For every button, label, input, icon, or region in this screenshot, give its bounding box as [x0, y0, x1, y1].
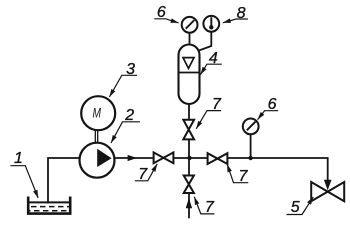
svg-text:3: 3: [126, 61, 135, 78]
svg-text:1: 1: [14, 150, 23, 167]
svg-text:4: 4: [209, 50, 218, 67]
svg-text:7: 7: [138, 166, 148, 183]
svg-text:6: 6: [268, 96, 277, 113]
svg-text:5: 5: [291, 199, 300, 216]
svg-text:7: 7: [212, 96, 222, 113]
svg-text:2: 2: [124, 107, 134, 124]
svg-text:M: M: [93, 104, 102, 120]
svg-text:7: 7: [205, 199, 215, 216]
svg-text:8: 8: [237, 5, 246, 22]
svg-text:7: 7: [239, 168, 249, 185]
svg-text:6: 6: [157, 4, 166, 21]
